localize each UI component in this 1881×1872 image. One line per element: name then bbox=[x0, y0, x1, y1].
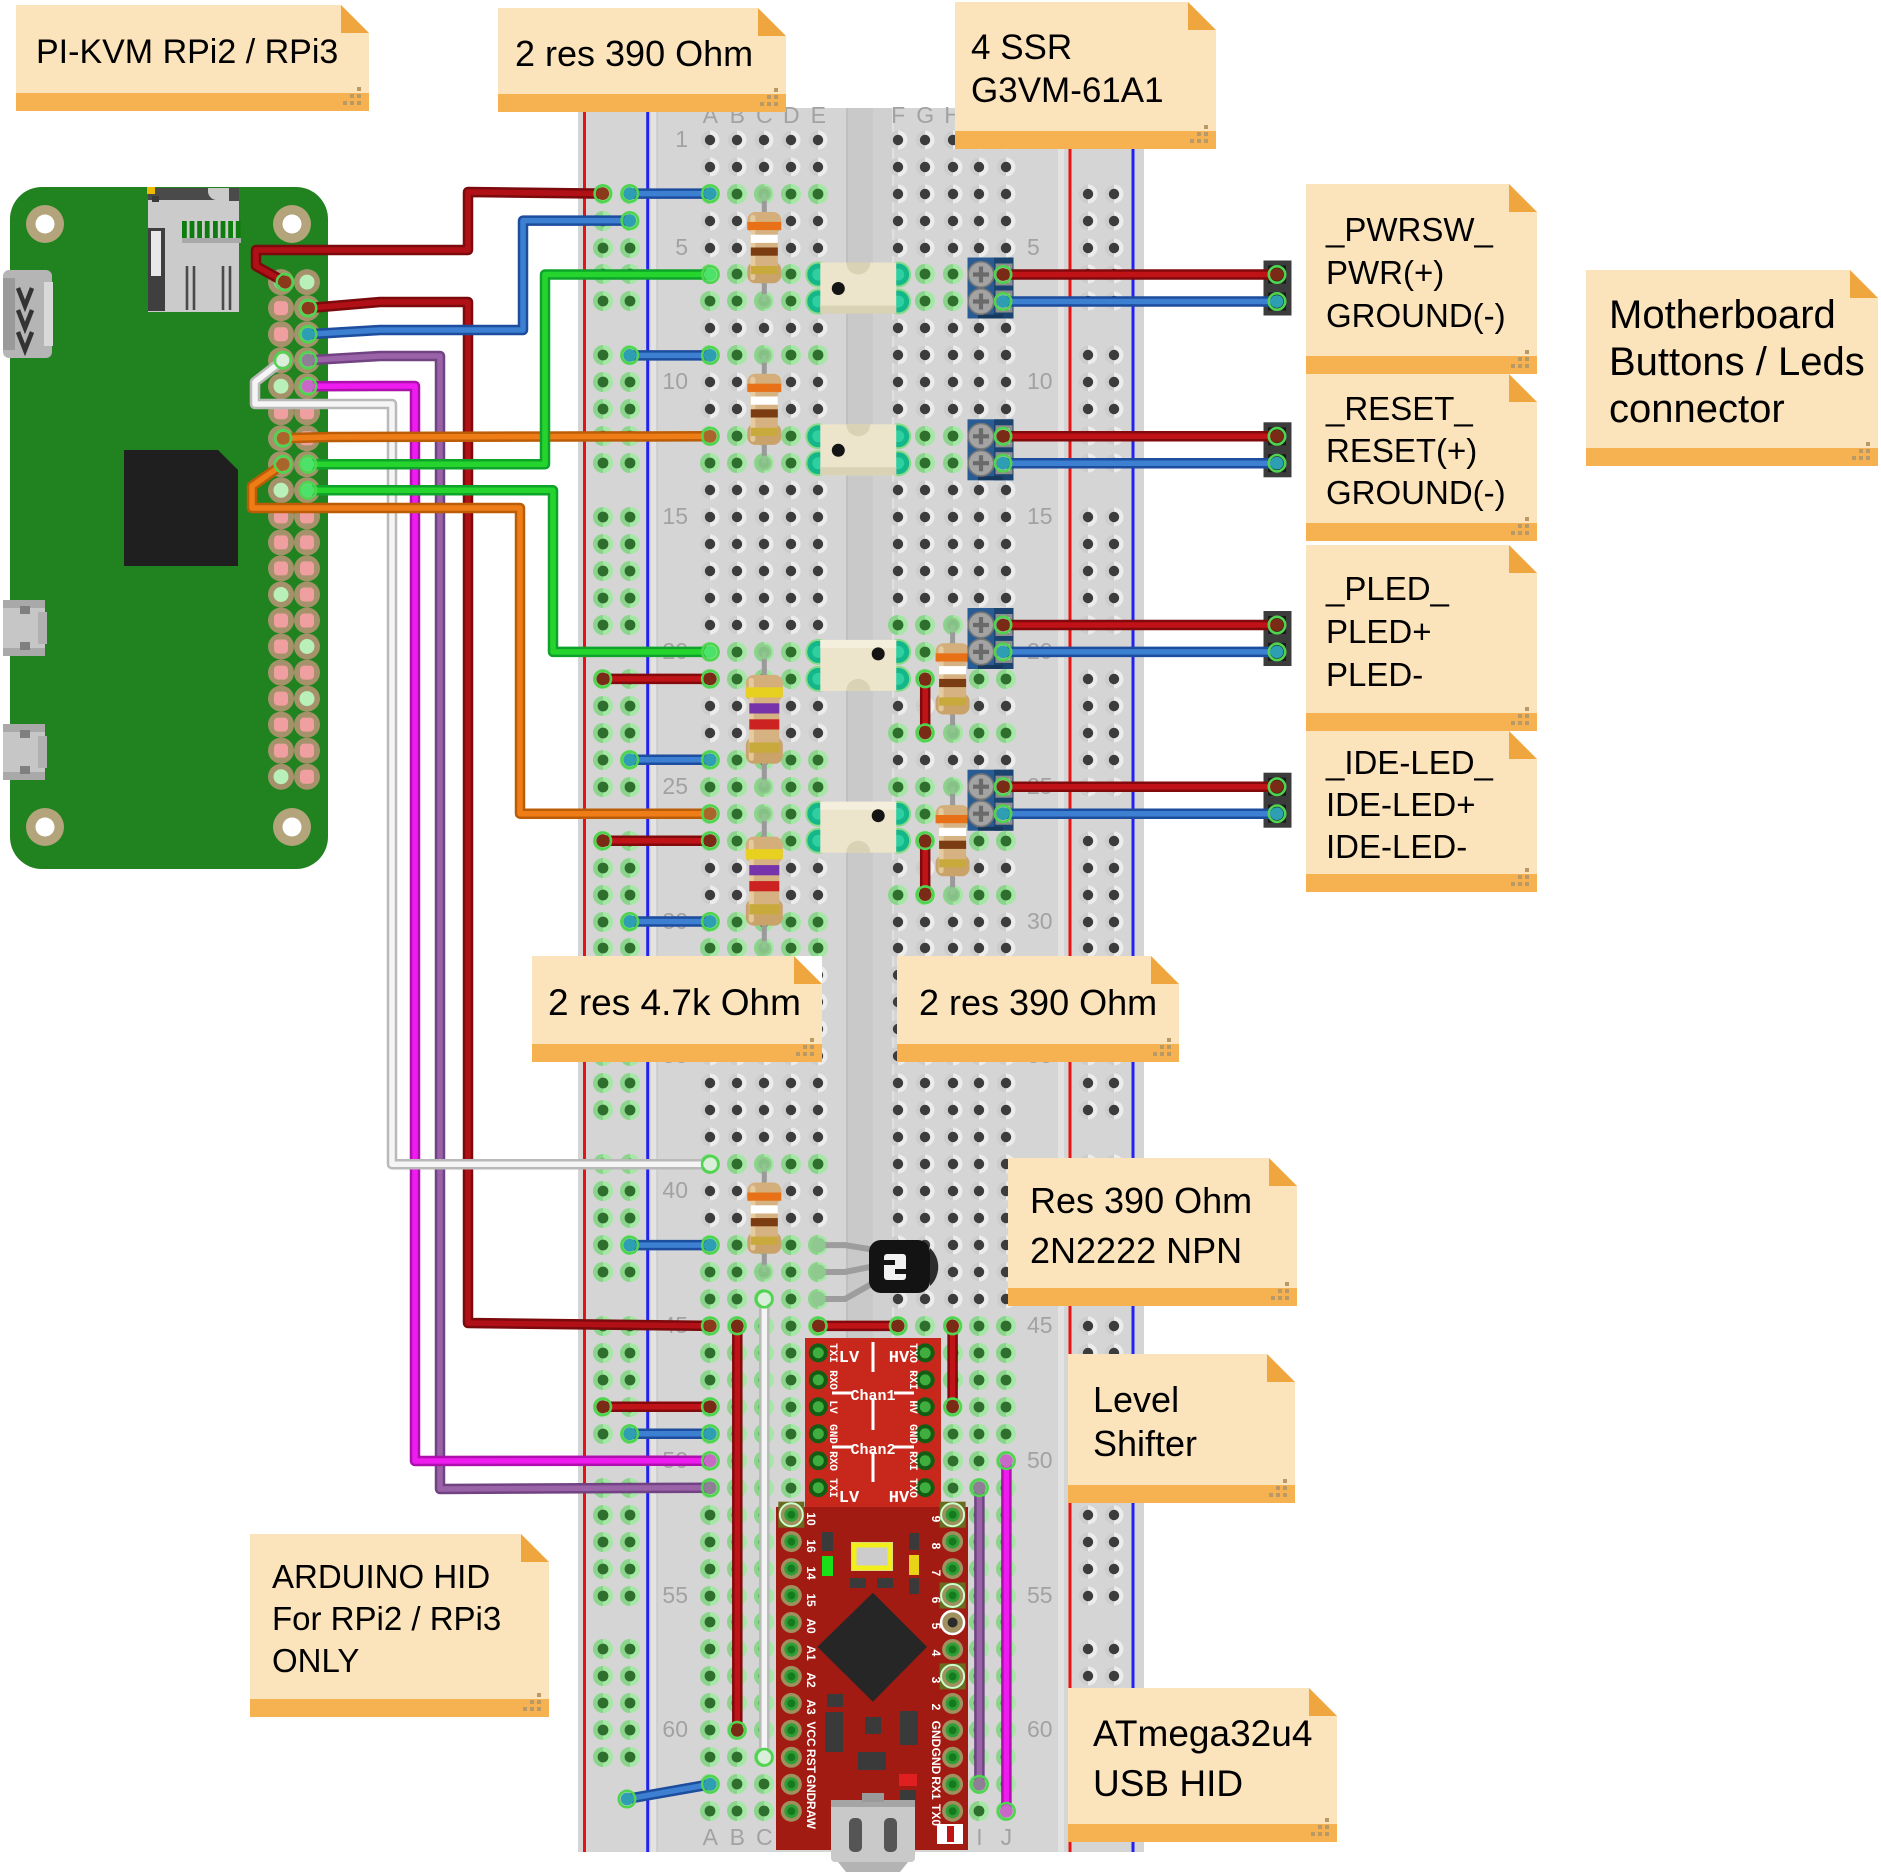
svg-text:GROUND(-): GROUND(-) bbox=[1326, 474, 1506, 511]
svg-text:A: A bbox=[703, 1824, 719, 1850]
note ARDUINO HID bbox=[250, 1534, 549, 1717]
svg-text:For RPi2 / RPi3: For RPi2 / RPi3 bbox=[272, 1600, 501, 1637]
svg-text:RXO: RXO bbox=[826, 1451, 838, 1471]
note 2 res 390 top bbox=[498, 8, 786, 112]
wire jumper H45-H48 (red) bbox=[944, 1318, 960, 1415]
resistor R3 4.7k Ohm bbox=[746, 644, 783, 794]
pin header J-PLED bbox=[1264, 611, 1292, 666]
note Res 390 2N2222 bbox=[1008, 1158, 1297, 1306]
wire jumper rail+ to A21 (red) bbox=[595, 671, 719, 687]
svg-text:1: 1 bbox=[675, 126, 688, 152]
svg-text:45: 45 bbox=[1027, 1312, 1053, 1338]
wire Pi GND to rail- (blue) bbox=[300, 212, 638, 342]
wire Pi GPIO to A26 (orange) bbox=[252, 456, 719, 822]
svg-text:60: 60 bbox=[662, 1716, 688, 1742]
svg-text:TXO: TXO bbox=[906, 1343, 918, 1363]
note ATmega32u4 bbox=[1068, 1688, 1337, 1842]
resistor R7 390 Ohm bbox=[936, 779, 970, 902]
svg-text:15: 15 bbox=[1027, 503, 1053, 529]
wire PLED - wire (blue) bbox=[995, 644, 1285, 660]
SSR U2 (G3VM-61A1) bbox=[805, 423, 911, 476]
note 2 res 4.7k bbox=[532, 956, 822, 1062]
svg-text:3: 3 bbox=[929, 1677, 943, 1684]
svg-text:HV: HV bbox=[906, 1400, 918, 1414]
svg-text:RXI: RXI bbox=[906, 1451, 918, 1471]
svg-text:A2: A2 bbox=[804, 1672, 818, 1688]
wire Pi GPIO to A20 (green) bbox=[300, 482, 719, 660]
svg-text:A3: A3 bbox=[804, 1699, 818, 1715]
resistor R6 390 Ohm bbox=[936, 618, 970, 741]
svg-text:ARDUINO HID: ARDUINO HID bbox=[272, 1558, 490, 1595]
transistor Q1 2N2222 bbox=[811, 1238, 938, 1307]
svg-text:25: 25 bbox=[662, 773, 688, 799]
svg-text:GROUND(-): GROUND(-) bbox=[1326, 297, 1506, 334]
svg-text:7: 7 bbox=[929, 1570, 943, 1577]
Arduino micro-USB connector bbox=[831, 1793, 915, 1872]
note PI-KVM bbox=[16, 5, 369, 111]
svg-text:9: 9 bbox=[929, 1516, 943, 1523]
wire IDE-LED + wire (red) bbox=[995, 779, 1285, 795]
svg-text:Buttons / Leds: Buttons / Leds bbox=[1609, 340, 1865, 384]
svg-text:2 res 390 Ohm: 2 res 390 Ohm bbox=[515, 33, 753, 74]
svg-text:A0: A0 bbox=[804, 1618, 818, 1634]
wire jumper E45-F45 (red) bbox=[810, 1318, 906, 1334]
wire jumper rail- to A49 (blue) bbox=[622, 1426, 719, 1442]
svg-text:GND: GND bbox=[929, 1721, 943, 1748]
svg-text:8: 8 bbox=[929, 1543, 943, 1550]
svg-text:connector: connector bbox=[1609, 387, 1785, 431]
note IDE-LED bbox=[1306, 731, 1537, 892]
svg-text:B: B bbox=[730, 1824, 745, 1850]
wire jumper C44-C61 (white) bbox=[756, 1291, 772, 1766]
wire jumper G27-G29 (red) bbox=[917, 833, 933, 903]
wire PWRSW + wire (red) bbox=[995, 266, 1285, 282]
note 2 res 390 mid bbox=[897, 956, 1179, 1062]
svg-text:VCC: VCC bbox=[804, 1721, 818, 1747]
svg-text:PLED-: PLED- bbox=[1326, 656, 1423, 693]
terminal block TB3 PLED bbox=[968, 608, 1014, 669]
note PWRSW bbox=[1306, 184, 1537, 374]
wire RESET - wire (blue) bbox=[995, 455, 1285, 471]
svg-text:30: 30 bbox=[1027, 908, 1053, 934]
breadboard body bbox=[578, 108, 1144, 1852]
resistor R1 390 Ohm bbox=[747, 186, 781, 309]
wire jumper rail- to A24 (blue) bbox=[622, 752, 719, 768]
svg-text:Res 390 Ohm: Res 390 Ohm bbox=[1030, 1180, 1252, 1221]
wire jumper rail+ to A27 (red) bbox=[595, 833, 719, 849]
svg-text:10: 10 bbox=[1027, 368, 1053, 394]
svg-text:TXI: TXI bbox=[826, 1478, 838, 1498]
level shifter board bbox=[805, 1338, 941, 1508]
svg-text:4 SSR: 4 SSR bbox=[971, 28, 1072, 67]
svg-text:I: I bbox=[976, 1824, 982, 1850]
svg-text:RST: RST bbox=[804, 1749, 818, 1774]
note PLED bbox=[1306, 545, 1537, 731]
wire Pi GPIO to A50 (magenta) bbox=[300, 378, 719, 1469]
SSR U1 (G3VM-61A1) bbox=[805, 262, 911, 315]
svg-text:TX0: TX0 bbox=[929, 1804, 943, 1826]
wire RESET + wire (red) bbox=[995, 428, 1285, 444]
Arduino Pro Micro (ATmega32u4) bbox=[776, 1502, 968, 1850]
svg-text:2 res 390 Ohm: 2 res 390 Ohm bbox=[919, 982, 1157, 1023]
svg-text:_RESET_: _RESET_ bbox=[1325, 390, 1473, 427]
wire Pi GPIO to A6 (green) bbox=[300, 266, 719, 472]
svg-text:LV: LV bbox=[826, 1400, 838, 1414]
terminal block TB2 RESET bbox=[968, 419, 1014, 480]
svg-text:14: 14 bbox=[804, 1566, 818, 1580]
SSR U4 (G3VM-61A1) bbox=[805, 801, 911, 854]
wire Pi GPIO to A45 (red) bbox=[300, 300, 719, 1334]
breadboard labels bbox=[662, 102, 1052, 1850]
svg-text:2: 2 bbox=[929, 1704, 943, 1711]
note Level Shifter bbox=[1068, 1354, 1295, 1503]
svg-text:_PWRSW_: _PWRSW_ bbox=[1325, 211, 1494, 248]
note RESET bbox=[1306, 374, 1537, 541]
wire Pi GPIO to A51 (purple) bbox=[300, 352, 719, 1496]
left power rail lines bbox=[585, 108, 648, 1852]
wire jumper rail+ to A48 (red) bbox=[595, 1399, 719, 1415]
svg-text:TXI: TXI bbox=[826, 1343, 838, 1363]
resistor R5 390 Ohm bbox=[747, 1157, 781, 1280]
svg-text:10: 10 bbox=[804, 1512, 818, 1526]
svg-text:J: J bbox=[1001, 1824, 1013, 1850]
wire Pi GPIO to A39 (white) bbox=[255, 352, 719, 1172]
svg-text:16: 16 bbox=[804, 1539, 818, 1553]
svg-text:2 res 4.7k Ohm: 2 res 4.7k Ohm bbox=[548, 982, 801, 1023]
svg-text:Level: Level bbox=[1093, 1379, 1179, 1420]
svg-text:ONLY: ONLY bbox=[272, 1642, 359, 1679]
svg-text:RXO: RXO bbox=[826, 1370, 838, 1390]
svg-text:4: 4 bbox=[929, 1650, 943, 1657]
svg-text:GND: GND bbox=[929, 1748, 943, 1775]
svg-text:ATmega32u4: ATmega32u4 bbox=[1093, 1713, 1312, 1754]
svg-text:60: 60 bbox=[1027, 1716, 1053, 1742]
svg-text:5: 5 bbox=[675, 234, 688, 260]
svg-text:GND: GND bbox=[804, 1775, 818, 1802]
svg-text:2N2222 NPN: 2N2222 NPN bbox=[1030, 1230, 1242, 1271]
svg-text:G: G bbox=[916, 102, 934, 128]
svg-text:E: E bbox=[811, 102, 826, 128]
Pi mini-HDMI connector bbox=[3, 270, 53, 358]
svg-text:LV: LV bbox=[839, 1349, 860, 1368]
note Motherboard bbox=[1586, 270, 1878, 466]
svg-text:15: 15 bbox=[662, 503, 688, 529]
wire Pi 5V to rail+ (red) bbox=[256, 185, 611, 290]
Raspberry Pi Zero board bbox=[10, 187, 328, 869]
Pi micro-SD slot bbox=[147, 187, 241, 312]
wire jumper rail- to A9 (blue) bbox=[622, 347, 719, 363]
svg-text:PWR(+): PWR(+) bbox=[1326, 254, 1444, 291]
svg-text:PI-KVM RPi2 / RPi3: PI-KVM RPi2 / RPi3 bbox=[36, 33, 338, 71]
pin header J-IDELED bbox=[1264, 773, 1292, 828]
wire jumper rail- to A3 (blue) bbox=[622, 185, 719, 201]
SSR U3 (G3VM-61A1) bbox=[805, 639, 911, 692]
wire jumper J50-J63 (magenta) bbox=[998, 1453, 1014, 1820]
svg-text:15: 15 bbox=[804, 1593, 818, 1607]
wire IDE-LED - wire (blue) bbox=[995, 806, 1285, 822]
svg-text:Chan1: Chan1 bbox=[850, 1388, 895, 1405]
wire jumper G21-G23 (red) bbox=[917, 671, 933, 741]
wire PLED + wire (red) bbox=[995, 617, 1285, 633]
wire jumper rail- to A30 (blue) bbox=[622, 913, 719, 929]
wire jumper rail- to A62 (blue) bbox=[619, 1776, 719, 1807]
svg-text:6: 6 bbox=[929, 1597, 943, 1604]
pin header J-RESET bbox=[1264, 422, 1292, 477]
svg-text:5: 5 bbox=[1027, 234, 1040, 260]
svg-text:PLED+: PLED+ bbox=[1326, 613, 1431, 650]
svg-text:40: 40 bbox=[662, 1177, 688, 1203]
svg-text:RXI: RXI bbox=[906, 1370, 918, 1390]
note 4 SSR bbox=[955, 2, 1216, 149]
svg-text:RX1: RX1 bbox=[929, 1776, 943, 1800]
Pi GPIO header bbox=[268, 269, 320, 790]
svg-text:A1: A1 bbox=[804, 1645, 818, 1661]
svg-text:Chan2: Chan2 bbox=[850, 1442, 895, 1459]
wire jumper I51-I62 (purple) bbox=[971, 1480, 987, 1793]
Pi micro-USB port 1 bbox=[3, 600, 47, 656]
pin header J-PWRSW bbox=[1264, 261, 1292, 316]
svg-text:10: 10 bbox=[662, 368, 688, 394]
svg-text:55: 55 bbox=[1027, 1582, 1053, 1608]
wire PWRSW - wire (blue) bbox=[995, 293, 1285, 309]
svg-text:Shifter: Shifter bbox=[1093, 1423, 1197, 1464]
svg-text:5: 5 bbox=[929, 1623, 943, 1630]
svg-text:50: 50 bbox=[1027, 1447, 1053, 1473]
wire Pi GPIO to A12 (orange) bbox=[275, 428, 719, 446]
terminal block TB1 PWRSW bbox=[968, 258, 1014, 319]
svg-text:GND: GND bbox=[906, 1424, 918, 1444]
svg-text:TXO: TXO bbox=[906, 1478, 918, 1498]
resistor R4 4.7k Ohm bbox=[746, 806, 783, 956]
Pi micro-USB port 2 bbox=[3, 724, 47, 780]
wire jumper B45-B60 (red) bbox=[729, 1318, 745, 1739]
svg-text:GND: GND bbox=[826, 1424, 838, 1444]
right power rail lines bbox=[1070, 108, 1133, 1852]
Pi SoC chip bbox=[124, 450, 238, 566]
terminal block TB4 IDE-LED bbox=[968, 770, 1014, 831]
resistor R2 390 Ohm bbox=[747, 348, 781, 471]
svg-text:C: C bbox=[756, 1824, 773, 1850]
svg-text:_IDE-LED_: _IDE-LED_ bbox=[1325, 744, 1494, 781]
svg-text:IDE-LED+: IDE-LED+ bbox=[1326, 786, 1475, 823]
svg-text:Motherboard: Motherboard bbox=[1609, 293, 1836, 337]
svg-text:F: F bbox=[891, 102, 905, 128]
svg-text:RESET(+): RESET(+) bbox=[1326, 432, 1477, 469]
svg-text:LV: LV bbox=[839, 1489, 860, 1508]
svg-text:RAW: RAW bbox=[804, 1801, 818, 1830]
svg-text:USB HID: USB HID bbox=[1093, 1763, 1243, 1804]
svg-text:IDE-LED-: IDE-LED- bbox=[1326, 828, 1467, 865]
wire jumper rail- to A42 (blue) bbox=[622, 1237, 719, 1253]
svg-text:G3VM-61A1: G3VM-61A1 bbox=[971, 71, 1164, 110]
svg-text:55: 55 bbox=[662, 1582, 688, 1608]
svg-text:_PLED_: _PLED_ bbox=[1325, 570, 1450, 607]
